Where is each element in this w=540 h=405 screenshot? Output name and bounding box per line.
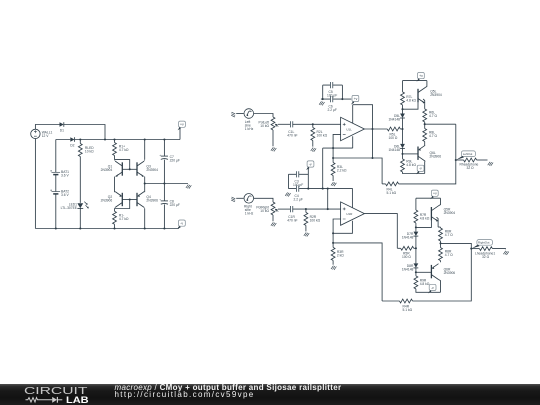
wire C1R to opamp — [293, 208, 341, 210]
svg-text:4.7 Ω: 4.7 Ω — [445, 233, 453, 237]
headphone tap junction — [455, 159, 457, 161]
ground (R3R) — [331, 266, 336, 270]
svg-text:220 µF: 220 µF — [170, 203, 180, 207]
svg-text:4.7 Ω: 4.7 Ω — [445, 253, 453, 257]
-V flag (right buffer) — [428, 284, 436, 293]
svg-text:4.7 Ω: 4.7 Ω — [429, 134, 437, 138]
resistor RLED 10 kΩ — [79, 140, 81, 203]
capacitor C8 220 µF — [163, 184, 165, 229]
buffer output wire (right) — [441, 243, 472, 248]
svg-text:2 kΩ: 2 kΩ — [337, 253, 344, 257]
node A wires (Q1 collector/base tie) — [115, 160, 130, 170]
resistor R8R 4.7 Ω — [439, 248, 443, 261]
svg-text:-v: -v — [180, 222, 183, 226]
svg-text:1N4148: 1N4148 — [402, 236, 414, 240]
svg-text:2N3906: 2N3906 — [444, 271, 456, 275]
diode D7R 1N4148 — [414, 232, 419, 237]
-V flag (mid) — [306, 161, 314, 170]
Q5L emitter to R6L — [423, 99, 425, 109]
node dots on rail — [79, 138, 81, 140]
transistor Q5R 2N3904 — [431, 206, 438, 222]
svg-text:+v: +v — [433, 192, 437, 196]
+V flag (left buffer) — [417, 73, 425, 82]
resistor Rheadphone 32 Ω — [456, 159, 464, 161]
svg-text:LTL-307EE: LTL-307EE — [61, 206, 78, 210]
Q2 collector down to R1- — [114, 209, 116, 212]
svg-text:RightOut: RightOut — [478, 241, 490, 245]
svg-text:-v: -v — [431, 286, 434, 290]
svg-text:2.2 kΩ: 2.2 kΩ — [337, 169, 347, 173]
svg-text:4.7 Ω: 4.7 Ω — [429, 114, 437, 118]
+V wire — [416, 198, 441, 210]
svg-text:100 Ω: 100 Ω — [389, 136, 398, 140]
transistor Q5L 2N3904 — [418, 88, 425, 104]
op-amp U1L — [341, 117, 365, 140]
Q2 base-collector tie loop — [122, 199, 137, 201]
svg-text:5.1 kΩ: 5.1 kΩ — [403, 308, 413, 312]
RightOut junction — [470, 248, 472, 250]
ground (R2L) — [311, 148, 316, 152]
transistor Q6L 2N3906 — [424, 142, 426, 146]
U1R -input wiring — [333, 219, 341, 243]
svg-text:1 kHz: 1 kHz — [245, 212, 254, 216]
svg-text:5.1 kΩ: 5.1 kΩ — [387, 191, 397, 195]
wire gnd to source — [236, 113, 243, 115]
diode D5L 1N4148 — [400, 114, 405, 119]
potentiometer PotLeft 10 kΩ — [271, 117, 275, 130]
source Right sine 1 kHz — [244, 194, 254, 204]
svg-text:4.8 kΩ: 4.8 kΩ — [406, 163, 416, 167]
voltage source WALL1 12 V — [31, 129, 40, 138]
svg-text:1N4148: 1N4148 — [402, 267, 414, 271]
svg-text:100 pF: 100 pF — [293, 183, 303, 187]
resistor R3R 2 kΩ — [332, 243, 334, 248]
feedback wire to R4L — [333, 158, 382, 184]
svg-text:4.7 kΩ: 4.7 kΩ — [119, 217, 129, 221]
transistor Q1 2N3904 — [115, 161, 122, 177]
ground (C5/C6 loop) — [319, 101, 324, 105]
Q6L base wire — [403, 153, 419, 155]
svg-text:-v: -v — [419, 167, 422, 171]
output emitter column Q3-Q4 — [144, 177, 146, 192]
svg-text:4.8 kΩ: 4.8 kΩ — [420, 217, 430, 221]
ground (R3L) — [331, 182, 336, 186]
svg-text:2N3904: 2N3904 — [101, 168, 113, 172]
capacitor C5 100 pF (top of decoupling loop) — [323, 84, 343, 86]
U1L -input wiring — [333, 134, 341, 158]
capacitor C1L 470 nF — [291, 121, 293, 127]
label WALL1 12V — [42, 131, 53, 139]
svg-text:1 kHz: 1 kHz — [245, 127, 254, 131]
LED1 LTL-307EE — [77, 202, 88, 209]
svg-text:1N4148: 1N4148 — [388, 117, 400, 121]
ground (left headphone) — [488, 162, 493, 166]
svg-text:2N3906: 2N3906 — [430, 154, 442, 158]
svg-text:32 Ω: 32 Ω — [467, 166, 475, 170]
battery BAT1 3.6V — [50, 170, 60, 175]
output wire to ground — [145, 183, 188, 185]
svg-text:100 kΩ: 100 kΩ — [310, 218, 321, 222]
wire WALL1 bottom down to bottom rail — [34, 139, 36, 229]
svg-text:-v: -v — [309, 162, 312, 166]
resistor Lheadphone1 32 Ω — [471, 248, 479, 250]
resistor R3L 2.2 kΩ — [332, 158, 334, 163]
svg-text:10 kΩ: 10 kΩ — [85, 150, 94, 154]
svg-text:10 kΩ: 10 kΩ — [260, 209, 269, 213]
ground (right headphone) — [503, 251, 508, 255]
+V flag (left circuit) — [179, 128, 181, 139]
ground (pot right) — [271, 222, 276, 226]
resistor R4L 5.1 kΩ (feedback) — [382, 183, 386, 185]
capacitor C1R 470 nF — [291, 206, 293, 212]
resistor R5L 100 Ω (series output) — [387, 127, 400, 131]
wire D1 to rail corner — [64, 125, 105, 140]
svg-text:100 Ω: 100 Ω — [402, 255, 411, 259]
svg-text:LAB: LAB — [66, 395, 89, 405]
svg-text:2N3904: 2N3904 — [444, 211, 456, 215]
branch from supply wire down to input — [327, 189, 329, 210]
svg-text:4.7 kΩ: 4.7 kΩ — [119, 148, 129, 152]
ground (left input) — [231, 112, 236, 118]
potentiometer PotRight 10 kΩ — [271, 202, 275, 215]
left emitter column Q1-Q2 — [114, 177, 116, 192]
svg-text:100 kΩ: 100 kΩ — [317, 134, 328, 138]
ground (C3/C4 loop) — [285, 192, 290, 196]
transistor Q4 2N3906 — [137, 192, 144, 208]
svg-text:4.8 kΩ: 4.8 kΩ — [420, 282, 430, 286]
wire source to pot — [254, 114, 273, 118]
resistor R9R 4.8 kΩ — [414, 276, 418, 289]
svg-text:2N3906: 2N3906 — [146, 199, 158, 203]
wire pot bottom to ground — [272, 215, 274, 221]
svg-text:U1L: U1L — [346, 127, 352, 131]
Q5R base wire — [416, 220, 432, 227]
bottom rail — [35, 228, 178, 230]
wire loop left side — [288, 174, 290, 188]
feedback wire to R4R — [333, 243, 382, 301]
svg-text:D1: D1 — [60, 128, 64, 132]
diode D1 — [60, 122, 64, 127]
node junctions on C5/C6 wire — [322, 98, 324, 100]
+V flag (right buffer) — [430, 190, 438, 199]
ground (pot left) — [271, 147, 276, 151]
diode D8R 1N4148 — [414, 263, 419, 268]
base wire Q1-Q3 — [122, 168, 137, 170]
diode D6L 1N4148 — [400, 144, 405, 149]
svg-text:+: + — [159, 198, 161, 202]
wire loop sides — [323, 85, 343, 99]
resistor R2L 100 kΩ — [312, 124, 314, 127]
capacitor C3 100 pF (top of loop) — [289, 173, 309, 175]
svg-text:+v: +v — [419, 74, 423, 78]
resistor R4R 5.1 kΩ — [382, 300, 399, 302]
U1L V+ pin to +V flag — [352, 105, 354, 124]
svg-text:2N3904: 2N3904 — [146, 168, 158, 172]
svg-text:470 nF: 470 nF — [287, 134, 297, 138]
svg-text:+v: +v — [354, 97, 358, 101]
svg-text:2.2 µF: 2.2 µF — [328, 108, 337, 112]
transistor Q6R 2N3906 — [440, 261, 442, 263]
capacitor C7 220 µF — [163, 140, 165, 184]
buffer output wire (left) — [425, 123, 456, 125]
transistor Q2 2N3906 — [115, 192, 122, 208]
svg-text:2N3906: 2N3906 — [101, 199, 113, 203]
ground (R2R) — [304, 232, 309, 236]
Q5R emitter to R6R — [437, 217, 439, 227]
svg-text:10 kΩ: 10 kΩ — [260, 124, 269, 128]
svg-text:+v: +v — [180, 123, 184, 127]
RightOut flag — [472, 240, 493, 249]
svg-text:1N4148: 1N4148 — [388, 148, 400, 152]
U1R output wire — [364, 214, 397, 249]
capacitor C6 2.2 uF (bottom of decoupling loop) — [321, 98, 351, 100]
resistor R2R 100 kΩ — [305, 209, 307, 212]
+V wire — [403, 81, 427, 92]
resistor R6R 4.7 Ω — [439, 228, 443, 241]
battery BAT2 3.6V — [50, 189, 60, 194]
svg-text:U1R: U1R — [346, 212, 353, 216]
wire flag corner to feedback rect — [353, 105, 373, 158]
svg-text:3.6 V: 3.6 V — [61, 193, 69, 197]
svg-text:100 pF: 100 pF — [327, 94, 337, 98]
wire top from WALL1 to D1 — [35, 125, 59, 130]
resistor R9L 4.8 kΩ — [401, 159, 405, 172]
U1L output wire — [364, 128, 387, 130]
ground (railsplitter output) — [186, 185, 191, 189]
Q6R base wire — [416, 271, 432, 273]
wire LED1 to bottom rail — [79, 208, 81, 228]
resistor R1+ 4.7 kΩ — [114, 140, 116, 160]
Q3 collector to rail — [144, 140, 146, 160]
svg-text:D2: D2 — [70, 143, 74, 147]
source Left sine 1 kHz — [244, 109, 254, 119]
rail V+ (second rail) — [56, 139, 180, 141]
svg-text:+: + — [159, 153, 161, 157]
ground (right input) — [231, 196, 236, 202]
resistor R7R 4.8 kΩ — [414, 210, 418, 223]
-V flag (left buffer) — [416, 165, 424, 174]
resistor R6L 4.7 Ω — [423, 109, 427, 122]
Q5L base wire — [403, 102, 419, 109]
svg-text:2.2 µF: 2.2 µF — [294, 197, 303, 201]
node junctions on C4 wire — [307, 188, 309, 190]
capacitor C4 2.2 uF (bottom of loop) and supply wire to U1R — [289, 189, 353, 208]
op-amp U1R — [341, 202, 365, 225]
svg-text:4.8 kΩ: 4.8 kΩ — [406, 98, 416, 102]
Q4 collector down to bottom rail — [144, 209, 146, 229]
battery column wire — [55, 140, 57, 229]
wire pot bottom to ground — [272, 130, 274, 146]
LeftOut flag — [456, 151, 475, 160]
wire C1L to opamp — [293, 123, 341, 125]
wiper wire to C1R — [278, 208, 291, 210]
resistor R8L 4.7 Ω — [423, 129, 427, 142]
svg-text:3.6 V: 3.6 V — [61, 174, 69, 178]
svg-text:32 Ω: 32 Ω — [482, 255, 490, 259]
svg-text:470 nF: 470 nF — [287, 218, 297, 222]
resistor R7L 4.8 kΩ — [401, 92, 405, 105]
transistor Q3 2N3904 — [137, 161, 144, 177]
-V flag (left circuit) — [178, 227, 180, 229]
wiper wire to C1L — [278, 123, 291, 125]
svg-text:220 µF: 220 µF — [170, 158, 180, 162]
svg-text:2N3904: 2N3904 — [430, 93, 442, 97]
resistor R1- 4.7 kΩ — [113, 211, 117, 224]
svg-text:12 V: 12 V — [42, 134, 50, 138]
svg-text:LeftOut: LeftOut — [463, 152, 473, 156]
resistor R5R 100 Ω — [401, 246, 414, 250]
diode D2 — [70, 137, 74, 142]
